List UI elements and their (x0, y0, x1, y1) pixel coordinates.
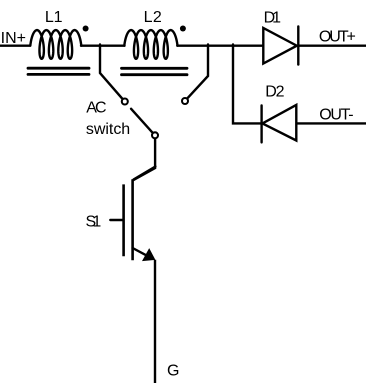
svg-text:AC: AC (86, 100, 106, 117)
svg-text:L2: L2 (144, 9, 162, 26)
svg-text:OUT-: OUT- (319, 107, 353, 124)
svg-text:S1: S1 (86, 213, 102, 230)
svg-text:OUT+: OUT+ (319, 29, 356, 46)
svg-text:L1: L1 (45, 9, 63, 26)
svg-text:G: G (167, 362, 179, 379)
svg-text:D1: D1 (264, 10, 281, 27)
svg-text:D2: D2 (265, 84, 284, 101)
svg-text:IN+: IN+ (1, 30, 26, 47)
svg-text:switch: switch (86, 121, 130, 138)
